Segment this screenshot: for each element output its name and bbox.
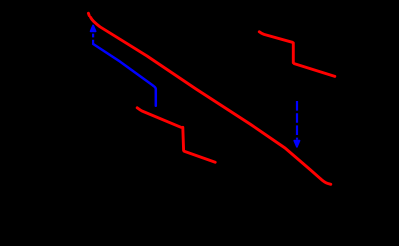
blue up arrow head bbox=[91, 25, 96, 31]
red step curve upper-right bbox=[259, 32, 335, 77]
blue up arrow shaft bbox=[92, 33, 94, 44]
red step curve middle-left bbox=[137, 108, 215, 163]
blue down arrow head bbox=[294, 141, 299, 147]
blue down arrow shaft bbox=[296, 101, 298, 140]
blue curve bbox=[93, 44, 156, 106]
red main curve bbox=[88, 13, 330, 184]
